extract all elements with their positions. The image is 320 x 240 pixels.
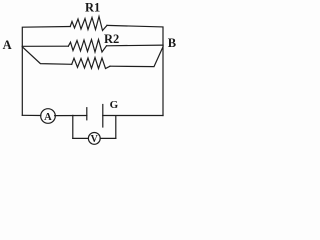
- ammeter A1: [41, 109, 56, 124]
- wire voltmeter branch lower-right: [100, 137, 116, 139]
- resistor R2: [68, 40, 106, 53]
- wire middle branch left: [22, 45, 68, 47]
- svg-text:B: B: [168, 36, 176, 50]
- wire left vertical (node A down to bottom): [21, 46, 23, 115]
- svg-text:R2: R2: [104, 32, 119, 46]
- wire ammeter to battery: [55, 115, 87, 117]
- voltmeter V1: [88, 133, 100, 145]
- wire lower branch left diagonal from node A: [22, 47, 71, 65]
- wire voltmeter branch right vertical: [115, 116, 117, 139]
- battery cell G: short plate: [86, 108, 88, 120]
- wire lower branch right diagonal to node B: [110, 47, 163, 67]
- svg-text:G: G: [110, 99, 119, 111]
- svg-text:A: A: [44, 112, 52, 123]
- wire R1 to top-right corner: [107, 25, 163, 45]
- resistor R3 (unlabeled): [72, 58, 110, 69]
- svg-text:A: A: [3, 38, 12, 52]
- wire right vertical (node B down to bottom): [162, 45, 164, 115]
- resistor R1: [70, 17, 107, 31]
- wire battery to bottom-right corner: [103, 115, 163, 117]
- wire voltmeter branch lower-left: [73, 137, 89, 139]
- wire bottom left to ammeter: [22, 114, 40, 116]
- battery cell G: long plate: [102, 105, 104, 128]
- wire R2 to node B: [107, 44, 164, 47]
- svg-text:V: V: [91, 134, 99, 145]
- wire voltmeter branch left vertical: [72, 115, 74, 138]
- svg-text:R1: R1: [85, 1, 100, 15]
- wire top branch left (node A column top to R1): [22, 27, 70, 47]
